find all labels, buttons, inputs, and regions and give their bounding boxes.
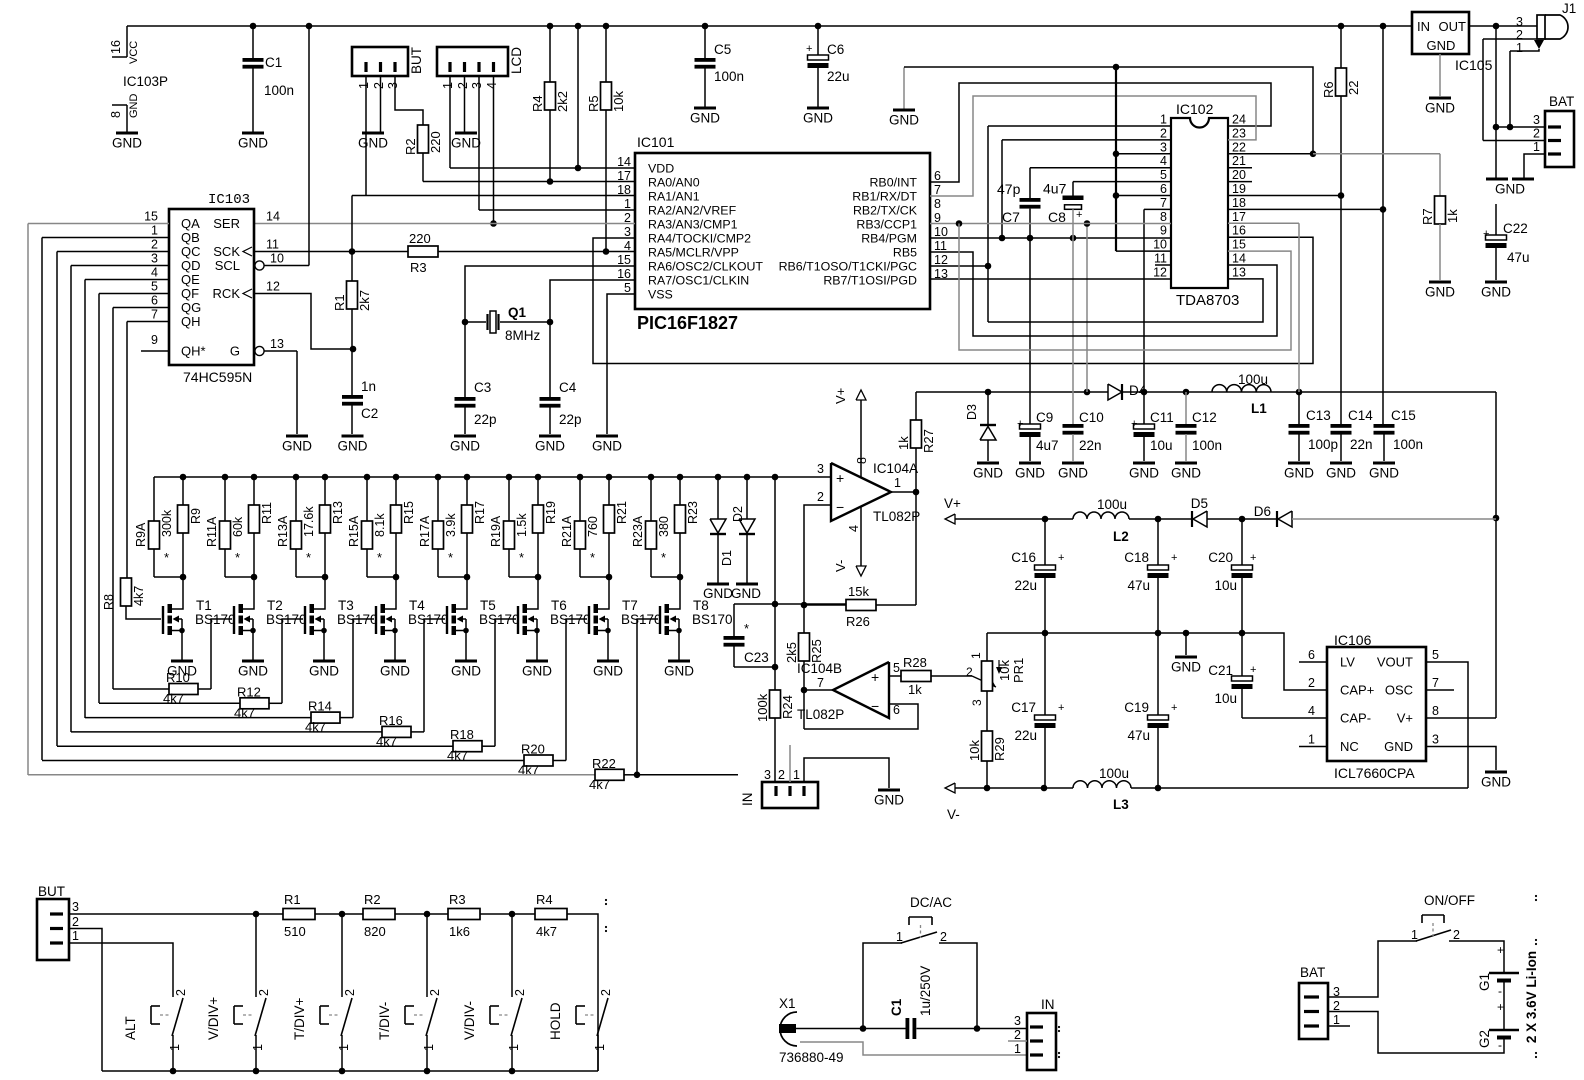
svg-text:1n: 1n	[361, 379, 376, 394]
svg-text:C6: C6	[827, 42, 844, 57]
svg-text:2: 2	[257, 989, 271, 996]
svg-text:+: +	[1076, 209, 1082, 221]
svg-text:RB1/RX/DT: RB1/RX/DT	[852, 190, 917, 204]
svg-text:22p: 22p	[559, 412, 582, 427]
svg-text:1u/250V: 1u/250V	[918, 966, 933, 1016]
svg-text:BUT: BUT	[38, 884, 65, 899]
svg-text:2: 2	[456, 82, 470, 89]
svg-text:GND: GND	[1015, 466, 1045, 481]
svg-text:4: 4	[847, 525, 861, 532]
svg-text:4u7: 4u7	[1043, 181, 1067, 197]
svg-text:T6: T6	[551, 598, 567, 613]
svg-text:GND: GND	[112, 136, 142, 151]
svg-text:1: 1	[894, 476, 901, 490]
svg-text:RA4/TOCKI/CMP2: RA4/TOCKI/CMP2	[648, 232, 751, 246]
svg-text:22u: 22u	[827, 69, 850, 84]
svg-text:GND: GND	[380, 664, 410, 679]
svg-text:C16: C16	[1011, 550, 1036, 565]
svg-text:74HC595N: 74HC595N	[183, 369, 252, 385]
svg-text:220: 220	[428, 131, 443, 153]
svg-text:100n: 100n	[1393, 437, 1423, 452]
svg-text:+: +	[1058, 552, 1064, 564]
svg-text:R2: R2	[364, 892, 381, 907]
svg-text:7: 7	[1432, 676, 1439, 690]
svg-text:*: *	[377, 550, 382, 565]
svg-text:LV: LV	[1340, 655, 1355, 670]
svg-text:R6: R6	[1321, 81, 1336, 98]
svg-text:BS170: BS170	[692, 612, 733, 627]
svg-text:2k2: 2k2	[555, 91, 570, 112]
svg-text:L2: L2	[1113, 529, 1129, 544]
svg-text:C3: C3	[474, 380, 491, 395]
svg-text:4k7: 4k7	[589, 777, 610, 792]
svg-text:+: +	[1250, 552, 1256, 564]
svg-text:2: 2	[1160, 126, 1167, 140]
svg-text:2: 2	[1516, 28, 1523, 42]
svg-text:RB2/TX/CK: RB2/TX/CK	[853, 204, 918, 218]
svg-text:T5: T5	[480, 598, 496, 613]
svg-text:R1: R1	[284, 892, 301, 907]
svg-text:100u: 100u	[1099, 766, 1129, 781]
svg-text:12: 12	[934, 253, 948, 267]
svg-text:1: 1	[72, 929, 79, 943]
svg-text:+: +	[1017, 418, 1023, 430]
svg-text:GND: GND	[1495, 182, 1525, 197]
svg-text:R18: R18	[450, 727, 474, 742]
svg-text:D1: D1	[720, 550, 734, 566]
svg-text:−: −	[871, 698, 879, 714]
svg-text:C5: C5	[714, 42, 731, 57]
svg-text:21: 21	[1232, 154, 1246, 168]
svg-text:R17: R17	[473, 501, 487, 524]
svg-text:11: 11	[266, 238, 279, 252]
svg-text:R5: R5	[586, 95, 601, 112]
svg-text:6: 6	[934, 169, 941, 183]
svg-text:C12: C12	[1192, 410, 1217, 425]
svg-text:R27: R27	[921, 429, 936, 453]
svg-text:+: +	[1497, 943, 1504, 957]
svg-text:100n: 100n	[714, 69, 744, 84]
svg-text:QA: QA	[181, 216, 200, 231]
svg-text:1: 1	[151, 224, 158, 238]
svg-text:C11: C11	[1150, 410, 1174, 425]
svg-text:GND: GND	[593, 664, 623, 679]
svg-text:10u: 10u	[1150, 438, 1173, 453]
svg-text:15k: 15k	[848, 584, 869, 599]
svg-text:10k: 10k	[611, 91, 626, 112]
svg-text:GND: GND	[1481, 775, 1511, 790]
svg-text:RB0/INT: RB0/INT	[869, 176, 917, 190]
svg-text:LCD: LCD	[509, 47, 524, 74]
svg-text:1: 1	[1516, 41, 1523, 55]
svg-text:14: 14	[1232, 252, 1246, 266]
svg-text:IC103: IC103	[208, 192, 250, 208]
svg-text:+: +	[1131, 418, 1137, 430]
svg-text:6: 6	[893, 703, 900, 717]
svg-text:R17A: R17A	[418, 515, 432, 547]
svg-text:17.6k: 17.6k	[302, 506, 316, 537]
svg-text:2k5: 2k5	[784, 642, 799, 663]
svg-text:PIC16F1827: PIC16F1827	[637, 313, 738, 333]
svg-text:L1: L1	[1251, 401, 1267, 416]
svg-text:IC105: IC105	[1455, 57, 1493, 73]
svg-text:OSC: OSC	[1385, 683, 1413, 698]
svg-text:2: 2	[966, 665, 973, 679]
svg-text:510: 510	[284, 924, 306, 939]
svg-text:GND: GND	[522, 664, 552, 679]
svg-text:RA6/OSC2/CLKOUT: RA6/OSC2/CLKOUT	[648, 260, 763, 274]
svg-text:R21A: R21A	[560, 515, 574, 547]
svg-text:22n: 22n	[1350, 437, 1373, 452]
svg-text:GND: GND	[731, 586, 761, 601]
svg-text:1: 1	[1411, 928, 1418, 942]
svg-text:GND: GND	[1481, 285, 1511, 300]
svg-text:22: 22	[1232, 140, 1246, 154]
svg-text:+: +	[1250, 664, 1256, 676]
svg-text:R24: R24	[780, 695, 795, 719]
svg-text:RB4/PGM: RB4/PGM	[861, 232, 917, 246]
svg-text:R15: R15	[402, 501, 416, 524]
svg-text:2: 2	[1533, 127, 1540, 141]
svg-text:100u: 100u	[1238, 372, 1268, 387]
svg-text:4: 4	[1160, 154, 1167, 168]
svg-text:QE: QE	[181, 272, 200, 287]
svg-text:10u: 10u	[1214, 691, 1237, 706]
svg-text:C21: C21	[1208, 663, 1233, 678]
svg-text:*: *	[519, 550, 524, 565]
svg-text:3: 3	[470, 82, 484, 89]
svg-text:GND: GND	[1425, 285, 1455, 300]
svg-text:1: 1	[507, 1044, 521, 1051]
svg-text:10k: 10k	[967, 740, 982, 761]
svg-text:GND: GND	[358, 136, 388, 151]
svg-text:V+: V+	[833, 388, 848, 404]
svg-text:4: 4	[151, 266, 158, 280]
svg-text:2: 2	[1453, 928, 1460, 942]
svg-text:R23A: R23A	[631, 515, 645, 547]
svg-text:SER: SER	[213, 216, 240, 231]
svg-text:R21: R21	[615, 501, 629, 524]
svg-text:60k: 60k	[231, 516, 245, 537]
svg-text:−: −	[836, 499, 844, 515]
svg-text:1.5k: 1.5k	[515, 513, 529, 537]
svg-text:QF: QF	[181, 286, 199, 301]
svg-text:IC101: IC101	[637, 134, 675, 150]
svg-text:ICL7660CPA: ICL7660CPA	[1334, 765, 1415, 781]
svg-text:300k: 300k	[160, 509, 174, 537]
svg-text:2: 2	[343, 989, 357, 996]
svg-text:GND: GND	[973, 466, 1003, 481]
svg-text:GND: GND	[128, 94, 140, 119]
svg-text:PR1: PR1	[1011, 658, 1026, 683]
svg-text:BAT: BAT	[1549, 94, 1574, 109]
svg-text:1: 1	[1014, 1042, 1021, 1056]
svg-text:GND: GND	[592, 439, 622, 454]
svg-text:R15A: R15A	[347, 515, 361, 547]
svg-text:C23: C23	[744, 650, 769, 665]
svg-text:19: 19	[1232, 182, 1246, 196]
svg-text:R28: R28	[903, 655, 927, 670]
svg-text:3: 3	[1533, 113, 1540, 127]
svg-text:11: 11	[1154, 252, 1167, 266]
svg-text:3: 3	[1432, 733, 1439, 747]
svg-text:RA2/AN2/VREF: RA2/AN2/VREF	[648, 204, 737, 218]
svg-text:V/DIV+: V/DIV+	[206, 997, 221, 1040]
svg-text:*: *	[661, 550, 666, 565]
svg-text:IC103P: IC103P	[123, 74, 168, 89]
svg-text:14: 14	[617, 155, 631, 169]
svg-text:5: 5	[1160, 168, 1167, 182]
svg-text:2: 2	[1014, 1028, 1021, 1042]
svg-text:VSS: VSS	[648, 288, 673, 302]
svg-text:C20: C20	[1208, 550, 1233, 565]
svg-text:QC: QC	[181, 244, 201, 259]
svg-text:DC/AC: DC/AC	[910, 895, 952, 910]
svg-text:GND: GND	[1171, 660, 1201, 675]
svg-text:RA7/OSC1/CLKIN: RA7/OSC1/CLKIN	[648, 274, 749, 288]
svg-text:RA0/AN0: RA0/AN0	[648, 176, 700, 190]
svg-text:4: 4	[485, 82, 499, 89]
svg-text:GND: GND	[309, 664, 339, 679]
svg-text:1k6: 1k6	[449, 924, 470, 939]
svg-text:1: 1	[422, 1044, 436, 1051]
svg-text:100n: 100n	[1192, 438, 1222, 453]
svg-text:R1: R1	[332, 294, 347, 311]
svg-text:760: 760	[586, 516, 600, 537]
svg-text:1: 1	[1160, 113, 1167, 127]
svg-text:X1: X1	[779, 996, 796, 1011]
svg-text:QD: QD	[181, 258, 201, 273]
svg-text:C15: C15	[1391, 408, 1416, 423]
svg-text:ON/OFF: ON/OFF	[1424, 893, 1475, 908]
svg-text:R25: R25	[809, 639, 824, 663]
svg-text:D3: D3	[965, 404, 979, 420]
svg-text:1: 1	[593, 1044, 607, 1051]
svg-text:820: 820	[364, 924, 386, 939]
svg-text:R4: R4	[530, 95, 545, 112]
svg-text:D6: D6	[1254, 504, 1271, 519]
svg-text:100n: 100n	[264, 83, 294, 98]
svg-text:T1: T1	[196, 598, 212, 613]
svg-text:R11A: R11A	[205, 516, 219, 547]
svg-text:C2: C2	[361, 406, 378, 421]
svg-text:C10: C10	[1079, 410, 1104, 425]
svg-text:16: 16	[109, 40, 123, 54]
svg-text:1: 1	[624, 197, 631, 211]
svg-text:2: 2	[372, 82, 386, 89]
svg-text:5: 5	[893, 661, 900, 675]
svg-text:J1: J1	[1562, 1, 1576, 16]
svg-text:2: 2	[428, 989, 442, 996]
svg-text:23: 23	[1232, 126, 1246, 140]
svg-text:9: 9	[151, 333, 158, 347]
svg-text:T3: T3	[338, 598, 354, 613]
svg-text:22u: 22u	[1014, 728, 1037, 743]
svg-text:R13A: R13A	[276, 515, 290, 547]
svg-text:C19: C19	[1124, 700, 1149, 715]
svg-text:R19A: R19A	[489, 515, 503, 547]
svg-text:5: 5	[624, 281, 631, 295]
svg-text:3: 3	[386, 82, 400, 89]
svg-text:R9A: R9A	[134, 522, 148, 547]
svg-text:GND: GND	[338, 439, 368, 454]
svg-text:8: 8	[1160, 210, 1167, 224]
svg-text:13: 13	[1232, 265, 1246, 279]
svg-text:GND: GND	[451, 664, 481, 679]
svg-text:22: 22	[1346, 81, 1361, 95]
svg-text:GND: GND	[1384, 739, 1413, 754]
svg-text:V-: V-	[833, 560, 848, 572]
svg-text:T7: T7	[622, 598, 638, 613]
svg-text:R9: R9	[189, 508, 203, 524]
svg-text:C14: C14	[1348, 408, 1373, 423]
svg-text:R12: R12	[237, 684, 261, 699]
svg-text:3: 3	[151, 252, 158, 266]
svg-text:10u: 10u	[1214, 578, 1237, 593]
svg-text:GND: GND	[238, 136, 268, 151]
svg-text:C8: C8	[1048, 209, 1066, 225]
svg-text:12: 12	[1153, 265, 1167, 279]
svg-text:C13: C13	[1306, 408, 1331, 423]
svg-text:R3: R3	[449, 892, 466, 907]
svg-text:NC: NC	[1340, 739, 1359, 754]
svg-text:GND: GND	[535, 439, 565, 454]
svg-text:7: 7	[817, 676, 824, 690]
svg-text:SCL: SCL	[215, 258, 240, 273]
svg-text:47u: 47u	[1127, 578, 1150, 593]
svg-text:15: 15	[144, 210, 158, 224]
svg-text:8: 8	[934, 197, 941, 211]
svg-text:1: 1	[251, 1044, 265, 1051]
svg-text:2: 2	[817, 490, 824, 504]
svg-text:3: 3	[1516, 15, 1523, 29]
svg-text:24: 24	[1232, 113, 1246, 127]
svg-text:R16: R16	[379, 713, 403, 728]
svg-text:8: 8	[1432, 704, 1439, 718]
svg-text:GND: GND	[1058, 466, 1088, 481]
svg-text:4k7: 4k7	[132, 586, 146, 606]
svg-text:TL082P: TL082P	[873, 509, 920, 524]
svg-text:4k7: 4k7	[536, 924, 557, 939]
svg-text:RA5/MCLR/VPP: RA5/MCLR/VPP	[648, 246, 739, 260]
svg-text:*: *	[448, 550, 453, 565]
svg-text:+: +	[1171, 702, 1177, 714]
svg-text:1: 1	[1533, 140, 1540, 154]
svg-text:1: 1	[896, 930, 903, 944]
svg-text:2: 2	[778, 768, 785, 782]
svg-text:1: 1	[337, 1044, 351, 1051]
svg-text:T4: T4	[409, 598, 425, 613]
svg-text:*: *	[164, 550, 169, 565]
svg-text:G: G	[230, 344, 240, 359]
svg-text:V/DIV-: V/DIV-	[462, 1001, 477, 1040]
svg-text:2: 2	[599, 989, 613, 996]
svg-text:CAP+: CAP+	[1340, 683, 1374, 698]
svg-text:R4: R4	[536, 892, 553, 907]
svg-text:2: 2	[151, 238, 158, 252]
svg-text:GND: GND	[803, 111, 833, 126]
svg-text:+: +	[806, 43, 812, 55]
svg-text:QH*: QH*	[181, 344, 206, 359]
svg-text:SCK: SCK	[213, 244, 240, 259]
svg-text:*: *	[744, 621, 749, 636]
svg-text:G2: G2	[1477, 1030, 1492, 1048]
svg-text:V+: V+	[944, 496, 961, 511]
svg-text:RB3/CCP1: RB3/CCP1	[856, 218, 917, 232]
svg-text:C7: C7	[1002, 209, 1020, 225]
svg-text:3: 3	[1160, 140, 1167, 154]
svg-text:T/DIV+: T/DIV+	[292, 997, 307, 1040]
svg-text:8: 8	[855, 457, 869, 464]
svg-text:ALT: ALT	[123, 1016, 138, 1040]
svg-text:+: +	[1497, 1000, 1504, 1014]
svg-text:R10: R10	[166, 670, 190, 685]
svg-text:C1: C1	[265, 55, 282, 70]
svg-text:2: 2	[72, 915, 79, 929]
svg-text:12: 12	[266, 280, 280, 294]
svg-text:QG: QG	[181, 300, 201, 315]
svg-text:380: 380	[657, 516, 671, 537]
svg-text:C1: C1	[889, 998, 904, 1016]
svg-text:1: 1	[1308, 733, 1315, 747]
svg-text:VOUT: VOUT	[1377, 655, 1413, 670]
svg-text:R14: R14	[308, 699, 332, 714]
svg-text:+: +	[1171, 552, 1177, 564]
svg-text:100k: 100k	[755, 693, 770, 722]
svg-text:V-: V-	[947, 807, 960, 822]
svg-text:R29: R29	[992, 737, 1007, 761]
svg-text:100p: 100p	[1308, 437, 1338, 452]
svg-text:D5: D5	[1191, 496, 1208, 511]
svg-text:GND: GND	[1425, 101, 1455, 116]
svg-text:VDD: VDD	[648, 162, 674, 176]
svg-text:C4: C4	[559, 380, 577, 395]
svg-text:RB7/T1OSI/PGD: RB7/T1OSI/PGD	[823, 274, 917, 288]
svg-text:BAT: BAT	[1300, 965, 1325, 980]
svg-text:IN: IN	[740, 793, 755, 807]
svg-text:1: 1	[969, 652, 983, 659]
svg-text:8: 8	[109, 111, 123, 118]
svg-text:10: 10	[1153, 238, 1167, 252]
svg-text:L3: L3	[1113, 797, 1129, 812]
svg-text:GND: GND	[703, 586, 733, 601]
svg-text:22n: 22n	[1079, 438, 1102, 453]
svg-text:2: 2	[940, 930, 947, 944]
svg-text:1: 1	[793, 768, 800, 782]
svg-text:GND: GND	[1171, 466, 1201, 481]
svg-text:7: 7	[934, 183, 941, 197]
svg-text:5: 5	[151, 280, 158, 294]
svg-text:GND: GND	[1369, 466, 1399, 481]
svg-text:1k: 1k	[908, 682, 922, 697]
svg-text:14: 14	[266, 210, 280, 224]
svg-text:1k: 1k	[896, 436, 911, 450]
svg-text:2: 2	[174, 989, 188, 996]
svg-text:1: 1	[168, 1044, 182, 1051]
svg-text:16: 16	[617, 267, 631, 281]
svg-text:GND: GND	[1326, 466, 1356, 481]
svg-text:Q1: Q1	[508, 305, 527, 320]
svg-text:7: 7	[151, 308, 158, 322]
svg-text:V+: V+	[1397, 711, 1413, 726]
svg-text:20: 20	[1232, 168, 1246, 182]
svg-text:*: *	[306, 550, 311, 565]
svg-text:4: 4	[1308, 704, 1315, 718]
svg-text:GND: GND	[238, 664, 268, 679]
svg-text:1: 1	[357, 82, 371, 89]
svg-text:18: 18	[1232, 196, 1246, 210]
svg-text:47u: 47u	[1127, 728, 1150, 743]
